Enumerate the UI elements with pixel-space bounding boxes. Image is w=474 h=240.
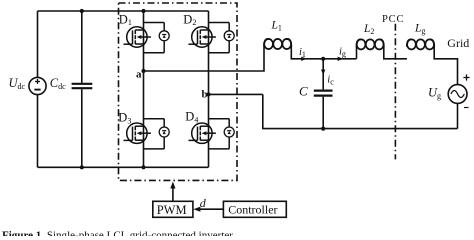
label minus bbox=[464, 107, 469, 109]
current arrow ig bbox=[338, 57, 344, 61]
wire: Ug to bottom rail bbox=[457, 103, 459, 128]
current arrow i1 bbox=[301, 57, 307, 61]
svg-text:Udc: Udc bbox=[9, 76, 26, 91]
inductor L1 bbox=[264, 39, 291, 49]
wire: L2 left lead bbox=[356, 46, 358, 59]
ac source Ug bbox=[448, 85, 467, 104]
transistor D4 with body diode bbox=[189, 119, 235, 149]
junction C bottom bbox=[321, 127, 325, 131]
svg-text:L2: L2 bbox=[363, 23, 374, 36]
wire: Lg to grid source bbox=[434, 46, 457, 85]
junction top rail / Cdc bbox=[80, 9, 84, 13]
svg-text:D2: D2 bbox=[183, 12, 196, 27]
svg-text:PWM: PWM bbox=[157, 203, 187, 217]
transistor D1 with body diode bbox=[124, 23, 170, 53]
inductor L2 bbox=[357, 39, 384, 49]
wire: Cdc vertical bottom bbox=[81, 89, 83, 167]
junction top rail / D1 leg bbox=[141, 9, 145, 13]
svg-text:Ug: Ug bbox=[428, 85, 441, 100]
svg-text:ic: ic bbox=[327, 74, 334, 86]
wire: node b to ac bottom bbox=[209, 93, 263, 95]
dash-dot inverter box bbox=[119, 3, 238, 180]
svg-text:a: a bbox=[136, 68, 142, 80]
block PWM bbox=[153, 201, 193, 217]
wire: Cdc vertical top bbox=[81, 11, 83, 83]
capacitor C bbox=[314, 91, 333, 96]
current arrow ic bbox=[321, 70, 325, 76]
svg-text:Controller: Controller bbox=[228, 203, 277, 217]
svg-text:D4: D4 bbox=[185, 110, 198, 125]
wire: DC bottom rail bbox=[38, 166, 209, 168]
node b bbox=[206, 92, 210, 96]
junction bottom rail / Cdc bbox=[80, 165, 84, 169]
wire: Udc vertical top bbox=[37, 11, 39, 77]
svg-text:Lg: Lg bbox=[414, 23, 425, 36]
wire: left bridge leg bus bbox=[143, 11, 145, 167]
svg-text:PCC: PCC bbox=[382, 14, 404, 25]
svg-text:L1: L1 bbox=[271, 20, 282, 33]
PCC dash-dot line bbox=[394, 24, 396, 160]
svg-text:i1: i1 bbox=[299, 47, 306, 59]
svg-text:D1: D1 bbox=[119, 12, 132, 27]
junction filter node top bbox=[321, 57, 325, 61]
svg-text:d: d bbox=[200, 196, 207, 210]
junction bottom rail / D3 leg bbox=[141, 165, 145, 169]
wire: C to bottom rail bbox=[322, 97, 324, 129]
svg-text:Cdc: Cdc bbox=[50, 76, 66, 91]
wire: node a to L1 bbox=[144, 46, 265, 71]
wire: L2 to Lg bbox=[384, 46, 407, 59]
svg-text:C: C bbox=[299, 84, 308, 99]
transistor D2 with body diode bbox=[189, 23, 235, 53]
svg-text:Grid: Grid bbox=[447, 36, 469, 50]
wire: L1 to filter node bbox=[291, 46, 356, 59]
wire: ac bottom rail bbox=[263, 94, 458, 128]
transistor D3 with body diode bbox=[124, 119, 170, 149]
wire: right bridge leg bus bbox=[208, 11, 210, 167]
label + bbox=[463, 74, 469, 80]
capacitor Cdc bbox=[72, 84, 93, 88]
dc source Udc bbox=[29, 77, 46, 94]
svg-text:D3: D3 bbox=[118, 111, 131, 126]
wire: Udc vertical bottom bbox=[37, 95, 39, 168]
wire: DC top rail bbox=[38, 10, 209, 12]
svg-text:ig: ig bbox=[339, 46, 346, 58]
svg-text:b: b bbox=[202, 89, 208, 101]
inductor Lg bbox=[407, 39, 434, 49]
gate drive arrow into inverter bbox=[170, 182, 175, 202]
svg-text:Figure 1. Single-phase LCL gri: Figure 1. Single-phase LCL grid-connecte… bbox=[2, 231, 234, 236]
signal d arrow Controller to PWM bbox=[193, 207, 223, 212]
wire: filter node down to C bbox=[322, 59, 324, 90]
node a bbox=[141, 69, 145, 73]
block Controller bbox=[223, 201, 286, 217]
